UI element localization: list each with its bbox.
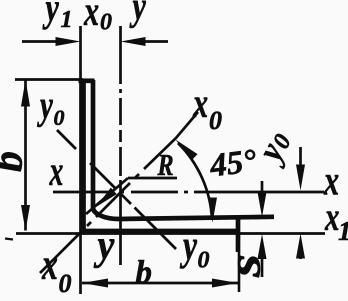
dimension b bottom: right arrow — [212, 279, 238, 288]
svg-text:x: x — [41, 241, 58, 289]
angle profile: inner top face of horizontal leg (extended right as extension line) — [119, 217, 274, 219]
dimension b left: upper arrow — [21, 80, 30, 107]
angle profile: top end cap — [79, 78, 95, 83]
angle profile: bottom outer face — [81, 229, 240, 234]
svg-text:0: 0 — [54, 105, 65, 130]
label s (thickness, rotated) — [218, 254, 270, 278]
dimension b left: lower arrow — [21, 205, 30, 231]
leader arrow for R — [96, 188, 117, 207]
svg-text:0: 0 — [59, 269, 72, 298]
arc arrow lower (toward leg face) — [208, 198, 217, 223]
axis X (centroid horizontal, dash-dot) — [53, 191, 324, 194]
svg-text:x: x — [192, 79, 208, 126]
small tick at left edge below X1 — [5, 239, 13, 240]
svg-text:0: 0 — [209, 106, 222, 135]
svg-text:1: 1 — [61, 7, 73, 33]
svg-text:x: x — [49, 147, 64, 194]
leader line for R with underline — [128, 177, 177, 180]
svg-text:1: 1 — [338, 216, 348, 246]
svg-text:R: R — [157, 148, 174, 183]
label b (left, rotated) — [0, 151, 32, 172]
dimension x0 top: right tail with left-pointing arrow — [144, 40, 168, 43]
arc arrow upper (toward x0 axis) — [176, 140, 198, 161]
angle profile: right end cap of horizontal leg — [236, 215, 241, 252]
axis y1 (vertical reference line along left face) — [79, 26, 82, 294]
label y0 (right, rotated) — [249, 124, 299, 170]
svg-text:b: b — [0, 151, 32, 172]
svg-text:b: b — [136, 255, 153, 291]
dimension y0 right: lower line and up arrow — [299, 255, 302, 259]
svg-text:y: y — [180, 223, 198, 269]
axis y0 (perpendicular diagonal, dash-dot) — [57, 130, 176, 249]
svg-text:0: 0 — [100, 10, 112, 36]
dimension b bottom: line — [82, 282, 238, 285]
dimension b left: vertical line — [24, 80, 27, 231]
dimension s (leg thickness): upper line and down arrow — [261, 181, 264, 195]
angle profile: inner vertical face — [91, 80, 96, 208]
angle profile: left outer face — [81, 80, 86, 232]
dimension y0 right: upper line and down arrow — [299, 147, 302, 170]
svg-text:y: y — [94, 221, 115, 268]
axis X1 (bottom reference line) — [16, 232, 325, 235]
dimension b bottom: left arrow — [82, 279, 108, 288]
angle profile: inner fillet radius R — [93, 208, 119, 220]
extension line below right end cap — [238, 252, 241, 292]
axis y (centroid vertical, dash-dot) — [119, 26, 122, 265]
svg-text:0: 0 — [198, 248, 210, 274]
svg-text:s: s — [218, 254, 270, 278]
axis x0 (45 degree diagonal, dash-dot) — [40, 112, 198, 273]
dimension s: lower line and up arrow — [261, 255, 264, 277]
45 degree dimension arc — [178, 143, 212, 220]
dimension x0 top: left tail with right-pointing arrow — [22, 40, 57, 43]
extension line for dimension b at top left — [15, 78, 83, 81]
svg-text:x: x — [83, 0, 99, 34]
